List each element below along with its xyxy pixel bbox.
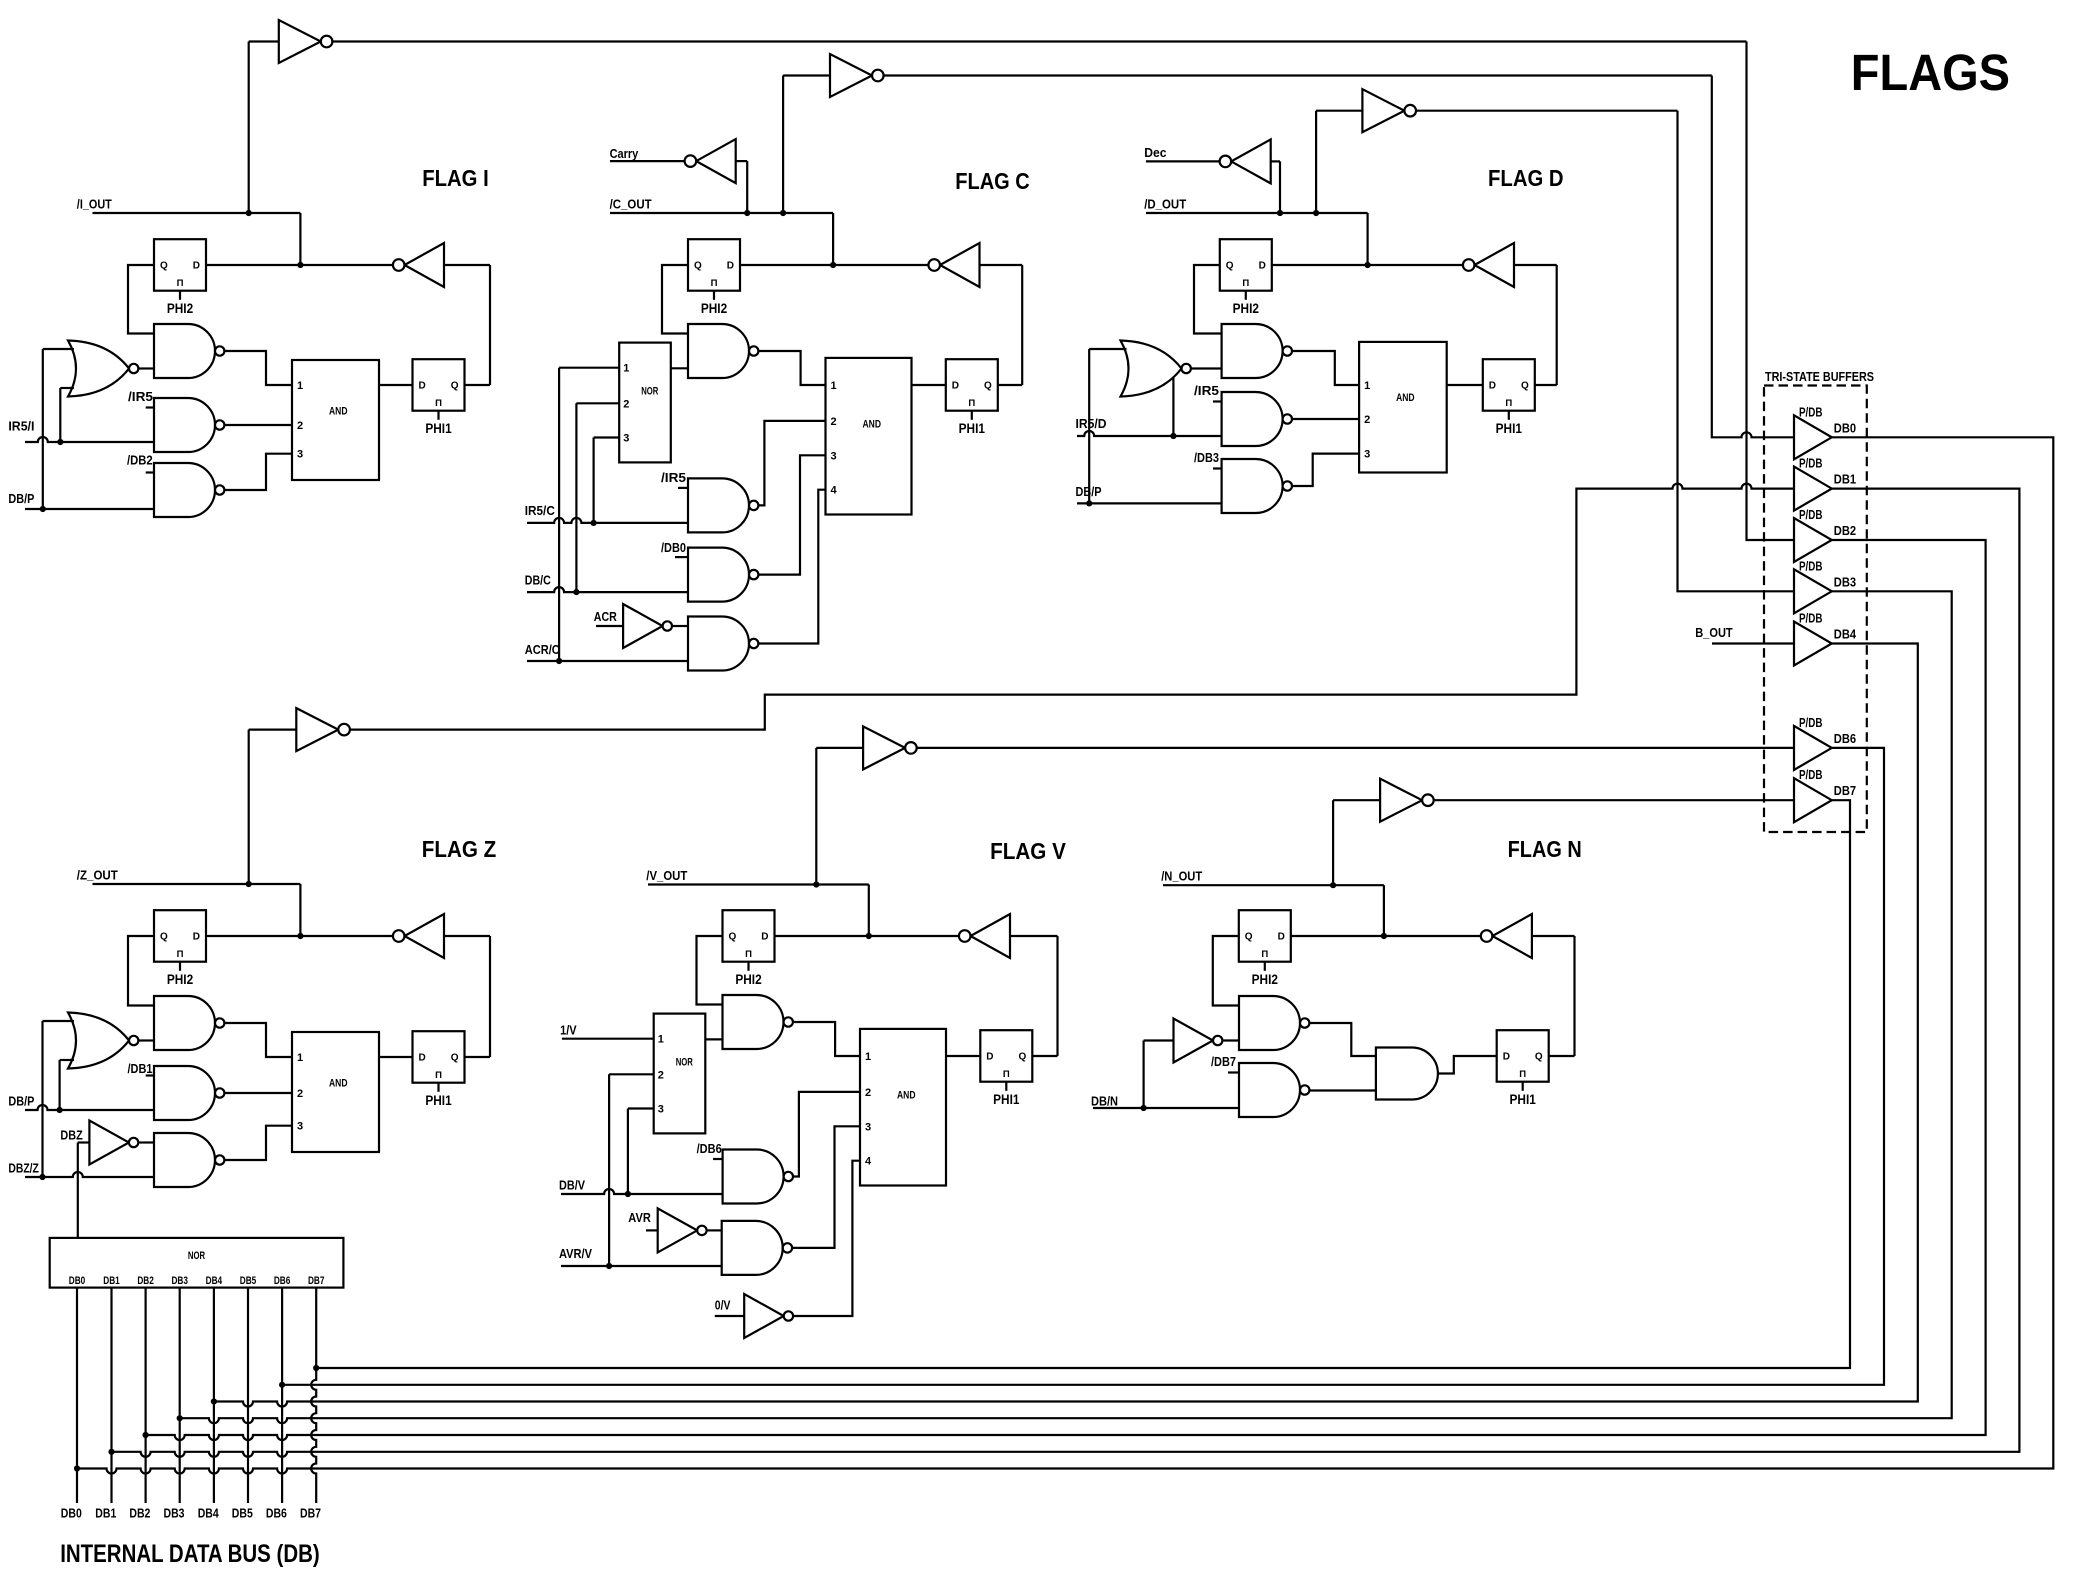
wire: D line of FLAG I latch (206, 264, 393, 266)
latch FF-I1 (PHI1) (413, 359, 465, 411)
svg-text:3: 3 (865, 1121, 871, 1133)
wire: AND output to PHI1 (FLAG C) (912, 384, 946, 386)
node: junction DB/V - NOR in3 (625, 1191, 631, 1197)
svg-text:B_OUT: B_OUT (1695, 625, 1733, 640)
svg-text:PHI2: PHI2 (1252, 972, 1278, 987)
node: junction DB/C - NOR in2 (573, 589, 579, 595)
svg-text:3: 3 (297, 1121, 303, 1133)
wire: nand I-G1 output to AND pin1 (224, 351, 292, 385)
svg-text:Dec: Dec (1144, 145, 1166, 160)
AND box FLAG Z (292, 1032, 379, 1152)
svg-text:DB4: DB4 (198, 1507, 219, 1521)
wire: /DB3 stub (1213, 467, 1222, 469)
node: junction DB/N - inverter riser (1141, 1105, 1147, 1111)
inverter Z1 (FLAG Z output inverter) (296, 708, 338, 751)
wire: /DB6 stub (713, 1158, 723, 1160)
svg-text:/DB7: /DB7 (1211, 1054, 1236, 1069)
svg-text:D: D (1503, 1052, 1510, 1063)
latch FF-I2 (PHI2) (154, 239, 206, 291)
wire: riser to inverter C1 (782, 76, 784, 214)
wire: buffer DB3 output to internal bus (180, 591, 1952, 1423)
inverter C1 (FLAG C output inverter) (830, 54, 872, 97)
wire: /N_OUT drop to latch D line (1383, 885, 1385, 936)
svg-text:Π: Π (435, 398, 442, 409)
svg-text:NOR: NOR (676, 1057, 693, 1069)
svg-text:P/DB: P/DB (1799, 404, 1823, 419)
inverter C3 (ACR) (623, 604, 663, 648)
svg-text:2: 2 (1364, 414, 1370, 426)
svg-text:Q: Q (1019, 1052, 1027, 1063)
wire: inverter 0/V output to AND pin4 (793, 1161, 860, 1316)
wire: /I_OUT riser to inverter I1 input (248, 42, 250, 214)
wire: inverter N3 output to nand N-G1 (1222, 1039, 1239, 1041)
wire: AVR inverter output to nand V-G3 (707, 1229, 722, 1231)
wire: buffer DB1 output to internal bus (112, 489, 2020, 1457)
wire: DB6 bus vertical (281, 1288, 283, 1503)
svg-text:PHI2: PHI2 (167, 301, 193, 316)
node: junction on FLAG D D line (1365, 262, 1371, 268)
wire: PHI1 Q output (FLAG V) (1032, 1055, 1057, 1057)
wire: PHI2 latch Q loop (FLAG Z) (128, 936, 154, 1006)
wire: /IR5 stub (FLAG D) (1213, 400, 1222, 402)
wire: nand N-G2 output to AND gate bottom input (1309, 1089, 1376, 1091)
wire: DBZ inverter output to nand Z-G3 (138, 1141, 154, 1143)
svg-text:AND: AND (329, 405, 348, 417)
NOR box (data bus zero detect) (50, 1238, 344, 1288)
wire: D line of FLAG N latch (1291, 935, 1481, 937)
wire /Z_OUT horizontal (93, 883, 301, 885)
svg-text:IR5/I: IR5/I (8, 419, 34, 434)
svg-text:3: 3 (297, 449, 303, 461)
node: junction /Z_OUT - inverter riser (246, 881, 252, 887)
svg-text:/Z_OUT: /Z_OUT (77, 868, 118, 883)
wire: /Z_OUT drop to latch D line (299, 884, 301, 936)
svg-text:DB1: DB1 (103, 1275, 120, 1287)
svg-text:IR5/C: IR5/C (525, 503, 556, 518)
wire: nor Z-N1 output to nand Z-G1 (138, 1039, 154, 1041)
wire: PHI2 latch Q loop (FLAG N) (1213, 936, 1239, 1006)
nand I-G1 (154, 324, 215, 378)
svg-text:TRI-STATE BUFFERS: TRI-STATE BUFFERS (1765, 369, 1874, 384)
wire: FLAG D column down to DB3 buffer (1678, 111, 1795, 592)
wire DB/V row (561, 1189, 723, 1194)
wire: feedback inverter input (FLAG Z) (444, 935, 490, 937)
wire DB/P row (FLAG Z) (25, 1105, 154, 1110)
nand N-G1 (1239, 996, 1300, 1050)
svg-text:/IR5: /IR5 (1194, 383, 1219, 398)
nand C-G4 (ACR) (688, 617, 749, 671)
svg-text:1: 1 (297, 1052, 303, 1064)
svg-text:FLAG N: FLAG N (1508, 836, 1582, 862)
svg-text:DB/P: DB/P (8, 491, 34, 506)
wire: /Z_OUT riser to inverter Z1 input (248, 730, 250, 884)
wire: feedback inverter input (FLAG V) (1010, 935, 1058, 937)
nand D-G3 (/DB3) (1222, 459, 1283, 513)
node: junction bus DB1 (108, 1449, 114, 1455)
wire: NOR in3 horizontal (FLAG V) (628, 1107, 654, 1109)
svg-text:DB/P: DB/P (1076, 484, 1102, 499)
svg-text:AVR: AVR (628, 1210, 651, 1225)
wire: 0/V stub (715, 1315, 744, 1317)
svg-text:P/DB: P/DB (1799, 456, 1823, 471)
svg-text:Π: Π (177, 949, 184, 960)
wire: DBZ inverter input stub (78, 1141, 90, 1143)
svg-text:4: 4 (865, 1156, 872, 1168)
svg-text:DB2: DB2 (1834, 523, 1856, 538)
inverter V1 (FLAG V output inverter) (863, 726, 905, 769)
inverter V3 (AVR) (658, 1208, 698, 1252)
svg-text:1: 1 (1364, 380, 1370, 392)
wire: inverter I1 input horizontal (249, 40, 279, 42)
AND box FLAG C (826, 358, 912, 515)
wire 1/V row into NOR in1 (562, 1038, 654, 1040)
svg-text:FLAG I: FLAG I (422, 165, 489, 191)
nand Z-G3 (154, 1133, 215, 1187)
svg-text:Π: Π (1003, 1069, 1010, 1080)
wire: /IR5 stub (FLAG C) (678, 487, 688, 489)
wire: Q riser of FLAG V (1056, 936, 1058, 1056)
svg-text:Q: Q (160, 932, 168, 943)
wire: NOR in1 riser from ACR/C (558, 368, 560, 661)
svg-text:PHI1: PHI1 (425, 1093, 452, 1108)
wire: /C_OUT drop to latch D line (832, 213, 834, 265)
AND box FLAG V (860, 1029, 946, 1186)
inverter C0 (Carry, left-pointing) (696, 139, 736, 183)
wire: NOR box output riser to DBZ inverter (77, 1143, 79, 1241)
inverter N1 (FLAG N output inverter) (1380, 779, 1422, 822)
svg-text:Π: Π (745, 949, 752, 960)
wire: nand V-G3 output to AND pin3 (792, 1126, 860, 1248)
wire: inverter Z1 input horizontal (249, 728, 297, 730)
wire: DB/N riser to inverter N3 (1142, 1041, 1144, 1109)
wire B_OUT to DB4 buffer (1712, 642, 1794, 644)
wire: PHI2 latch Q loop (128, 265, 154, 334)
svg-text:3: 3 (1364, 449, 1370, 461)
node: junction DBZ/Z - nor riser (39, 1174, 45, 1180)
svg-text:D: D (419, 1053, 426, 1064)
svg-text:2: 2 (623, 398, 629, 410)
wire: ACR stub (596, 625, 623, 627)
svg-text:D: D (1278, 932, 1285, 943)
wire: DB0 bus vertical (76, 1288, 78, 1503)
svg-text:Π: Π (711, 278, 718, 289)
wire: NOR box output to nand C-G1 (671, 367, 688, 369)
svg-text:PHI2: PHI2 (167, 972, 193, 987)
svg-text:DB5: DB5 (240, 1275, 257, 1287)
wire: Q riser of FLAG N (1573, 936, 1575, 1056)
wire: Carry drop (746, 161, 748, 213)
wire: AND output to PHI1 latch (379, 384, 413, 386)
svg-text:DB7: DB7 (300, 1507, 321, 1521)
nand V-G1 (723, 995, 784, 1049)
svg-text:Π: Π (1519, 1069, 1526, 1080)
nand V-G3 (AVR) (722, 1221, 783, 1275)
wire /V_OUT horizontal (648, 883, 869, 885)
nand Z-G1 (154, 996, 215, 1050)
svg-text:DB7: DB7 (308, 1275, 325, 1287)
wire: AND output to PHI1 (FLAG Z) (379, 1056, 413, 1058)
wire: vertical IR5/I to nor bottom input (59, 388, 61, 442)
node: junction on FLAG Z D line (297, 933, 303, 939)
wire: nor Z-N1 top input (43, 1020, 75, 1022)
wire: NOR in3 riser from IR5/C (592, 438, 594, 523)
node: junction on latch D line (297, 262, 303, 268)
svg-text:/DB6: /DB6 (697, 1141, 722, 1156)
latch FF-Z2 (PHI2) (154, 910, 206, 962)
latch FF-C1 (PHI1) (946, 359, 998, 411)
svg-text:AND: AND (329, 1077, 348, 1089)
svg-text:DB4: DB4 (1834, 627, 1857, 642)
wire: D line of FLAG Z latch (206, 935, 393, 937)
wire: inverter D1 input horizontal (1316, 110, 1362, 112)
nand D-G1 (1222, 324, 1283, 378)
svg-text:Q: Q (1226, 261, 1234, 272)
wire: AND output to PHI1 (FLAG V) (946, 1055, 980, 1057)
svg-text:/D_OUT: /D_OUT (1144, 197, 1186, 212)
tri-state buffers dashed box (1764, 386, 1867, 833)
wire /I_OUT horizontal (93, 212, 301, 214)
svg-text:Q: Q (451, 1053, 459, 1064)
node: junction /V_OUT - inverter riser (813, 881, 819, 887)
wire: /V_OUT riser to inverter V1 input (815, 748, 817, 885)
wire: feedback inverter input (FLAG N) (1532, 935, 1575, 937)
wire: riser to inverter D1 (1315, 111, 1317, 213)
tri-state buffer DB0 (1794, 415, 1832, 459)
svg-text:DB1: DB1 (1834, 472, 1856, 487)
svg-text:3: 3 (623, 433, 629, 445)
wire ACR/C row (527, 660, 688, 662)
nand D-G2 (/IR5) (1222, 392, 1283, 446)
svg-text:IR5/D: IR5/D (1076, 416, 1107, 431)
svg-text:Π: Π (435, 1070, 442, 1081)
wire: nand V-G2 output to AND pin2 (793, 1092, 860, 1177)
svg-text:DB/C: DB/C (525, 573, 551, 588)
svg-text:AND: AND (863, 419, 882, 431)
wire: nor I-N1 output to nand I-G1 (138, 367, 154, 369)
svg-text:P/DB: P/DB (1799, 767, 1823, 782)
wire: D line of FLAG V latch (775, 935, 959, 937)
wire: inverter C1 output to tri-state DB0 column (884, 74, 1712, 76)
wire: Carry inverter to /C_OUT (736, 160, 748, 162)
svg-text:DB7: DB7 (1834, 783, 1856, 798)
svg-text:DB2: DB2 (137, 1275, 154, 1287)
svg-text:PHI2: PHI2 (735, 972, 761, 987)
node: junction bus DB3 (177, 1415, 183, 1421)
svg-text:Q: Q (451, 381, 459, 392)
wire: nor Z-N1 bottom input (60, 1059, 74, 1061)
svg-text:DBZ/Z: DBZ/Z (8, 1161, 39, 1176)
wire DB/P row (FLAG D) (1077, 502, 1222, 504)
wire: nand I-G2 output to AND pin2 (224, 424, 292, 426)
wire: nand Z-G3 output to AND pin3 (224, 1126, 292, 1160)
svg-text:4: 4 (831, 485, 838, 497)
svg-text:Q: Q (1535, 1052, 1543, 1063)
wire: nand N-G1 output to AND gate top input (1309, 1023, 1376, 1056)
wire: inverter N1 output to tri-state DB7 buffer (1434, 799, 1794, 801)
inverter D2 (feedback, left-pointing) (1475, 243, 1515, 287)
svg-text:DB6: DB6 (266, 1507, 287, 1521)
wire: NOR in2 riser from AVR/V (608, 1074, 610, 1266)
latch FF-V2 (PHI2) (723, 910, 775, 962)
inverter D1 (FLAG D output inverter) (1362, 89, 1404, 132)
tri-state buffer DB2 (1794, 518, 1832, 562)
wire: D line of FLAG C latch (740, 264, 928, 266)
svg-text:PHI1: PHI1 (1496, 421, 1523, 436)
AND box FLAG I (292, 360, 379, 480)
svg-text:PHI2: PHI2 (701, 301, 727, 316)
wire: DB5 bus vertical (247, 1288, 249, 1503)
wire: nand D-G3 output to AND pin3 (1292, 454, 1359, 486)
wire: /DB1 stub (146, 1074, 154, 1076)
wire: AND output to PHI1 (FLAG D) (1447, 384, 1483, 386)
svg-text:D: D (761, 932, 768, 943)
svg-text:DB3: DB3 (1834, 574, 1856, 589)
wire: NOR in1 horizontal (559, 367, 619, 369)
wire: PHI2 latch Q loop (FLAG V) (697, 936, 723, 1005)
wire: inverter Z1 output to tri-state DB1 buffer (350, 484, 1794, 730)
svg-text:/IR5: /IR5 (128, 389, 153, 404)
svg-text:/DB0: /DB0 (661, 540, 686, 555)
svg-text:Π: Π (1242, 278, 1249, 289)
svg-text:PHI2: PHI2 (1233, 301, 1259, 316)
wire: inverter C1 input horizontal (783, 74, 830, 76)
svg-text:DB/P: DB/P (8, 1094, 34, 1109)
nand I-G3 (154, 463, 215, 517)
svg-text:2: 2 (658, 1069, 664, 1081)
svg-text:DB0: DB0 (69, 1275, 86, 1287)
svg-text:DB4: DB4 (206, 1275, 223, 1287)
wire: nand Z-G1 output to AND pin1 (224, 1023, 292, 1057)
svg-text:Π: Π (1261, 949, 1268, 960)
wire: NOR in2 riser from DB/C (575, 403, 577, 592)
svg-text:/V_OUT: /V_OUT (646, 868, 687, 883)
wire: buffer DB2 output to internal bus (146, 540, 1986, 1440)
AND box FLAG D (1359, 342, 1447, 473)
svg-text:AVR/V: AVR/V (559, 1246, 592, 1261)
wire: /IR5 stub (146, 406, 154, 408)
wire: inverter I1 output to tri-state DB2 column (332, 40, 1746, 42)
wire: nor D-N1 output to nand D-G1 (1191, 367, 1222, 369)
wire: /N_OUT riser to inverter N1 input (1332, 800, 1334, 885)
node: junction bus DB0 (74, 1465, 80, 1471)
tri-state buffer DB7 (1794, 778, 1832, 822)
node: junction on FLAG V D line (866, 933, 872, 939)
svg-text:D: D (1489, 381, 1496, 392)
svg-text:D: D (986, 1052, 993, 1063)
inverter N3 (DB/N) (1174, 1019, 1214, 1063)
svg-text:ACR/C: ACR/C (525, 642, 561, 657)
nand C-G3 (/DB0) (688, 548, 749, 602)
wire: inverter V1 output to tri-state DB6 buffer (917, 747, 1794, 749)
wire: and gate output to PHI1 (FLAG N) (1438, 1056, 1497, 1074)
svg-text:0/V: 0/V (715, 1298, 731, 1313)
wire: vertical DB/P to nor bottom input (FLAG Z) (58, 1060, 60, 1110)
wire: buffer DB0 output to internal bus (77, 437, 2053, 1473)
svg-text:3: 3 (658, 1104, 664, 1116)
svg-text:DB2: DB2 (129, 1507, 150, 1521)
tri-state buffer DB1 (1794, 467, 1832, 511)
wire /C_OUT horizontal (610, 212, 833, 214)
svg-text:DB6: DB6 (1834, 731, 1856, 746)
wire: DB1 bus vertical (110, 1288, 112, 1503)
latch FF-C2 (PHI2) (688, 239, 740, 291)
inverter I1 (FLAG I output inverter) (279, 20, 321, 63)
node: junction bus DB7 (313, 1365, 319, 1371)
wire: D line of FLAG D latch (1272, 264, 1463, 266)
svg-text:NOR: NOR (641, 386, 658, 398)
wire: nor I-N1 top input (43, 348, 74, 350)
svg-text:D: D (193, 932, 200, 943)
svg-text:Π: Π (1505, 398, 1512, 409)
svg-text:Q: Q (729, 932, 737, 943)
svg-text:D: D (952, 381, 959, 392)
wire DB/P row (25, 508, 154, 510)
svg-text:/DB2: /DB2 (127, 453, 153, 468)
wire /N_OUT horizontal (1163, 884, 1384, 886)
wire: nand D-G1 output to AND pin1 (1292, 351, 1359, 385)
svg-text:DB3: DB3 (164, 1507, 185, 1521)
node: junction AVR/V - NOR in2 (606, 1263, 612, 1269)
wire: /DB2 stub (146, 471, 154, 473)
wire: inverter N3 input stub (1144, 1039, 1174, 1041)
wire: PHI1 Q output (FLAG C) (998, 384, 1022, 386)
wire: inverter D1 output to tri-state DB3 column (1416, 110, 1678, 112)
nor gate I-N1 (68, 341, 129, 397)
wire: PHI1 Q output (FLAG Z) (465, 1056, 491, 1058)
svg-text:PHI1: PHI1 (959, 421, 986, 436)
wire: DB2 bus vertical (145, 1288, 147, 1503)
svg-text:DBZ: DBZ (60, 1128, 82, 1143)
inverter Z2 (feedback, left-pointing) (405, 914, 445, 958)
svg-text:P/DB: P/DB (1799, 507, 1823, 522)
wire: PHI1 Q output (FLAG D) (1535, 384, 1557, 386)
svg-text:/N_OUT: /N_OUT (1161, 869, 1202, 884)
svg-text:D: D (193, 261, 200, 272)
svg-text:Q: Q (694, 261, 702, 272)
wire: Dec inverter to /D_OUT (1271, 160, 1280, 162)
svg-text:DB5: DB5 (232, 1507, 253, 1521)
node: junction bus DB6 (279, 1382, 285, 1388)
svg-text:/DB1: /DB1 (128, 1061, 153, 1076)
svg-text:/I_OUT: /I_OUT (77, 197, 112, 212)
wire: nand D-G2 output to AND pin2 (1292, 418, 1359, 420)
latch FF-N1 (PHI1) (1497, 1030, 1549, 1082)
svg-text:NOR: NOR (188, 1250, 205, 1262)
wire: NOR box output to nand V-G1 (705, 1038, 722, 1040)
wire: nand V-G1 output to AND pin1 (793, 1022, 860, 1056)
NOR box FLAG V (654, 1014, 706, 1134)
node: junction bus DB4 (211, 1398, 217, 1404)
node: junction /D_OUT - inverter riser (1313, 210, 1319, 216)
svg-text:1: 1 (658, 1034, 664, 1046)
wire: nor D-N1 top input (1089, 348, 1126, 350)
wire IR5/I row (25, 437, 154, 442)
node: junction /N_OUT - inverter riser (1330, 882, 1336, 888)
node: junction bus DB2 (143, 1432, 149, 1438)
wire: feedback inverter input (980, 264, 1023, 266)
wire Carry input (610, 160, 685, 162)
svg-text:1: 1 (831, 380, 837, 392)
latch FF-D1 (PHI1) (1483, 359, 1535, 411)
svg-text:DB/N: DB/N (1091, 1094, 1118, 1109)
svg-text:DB0: DB0 (61, 1507, 82, 1521)
node: junction /C_OUT - inverter riser (780, 210, 786, 216)
svg-text:FLAGS: FLAGS (1851, 44, 2010, 101)
node: junction /I_OUT - inverter riser (246, 210, 252, 216)
svg-text:DB/V: DB/V (559, 1178, 585, 1193)
svg-text:FLAG D: FLAG D (1488, 165, 1564, 191)
wire: /DB7 stub (1228, 1071, 1239, 1073)
